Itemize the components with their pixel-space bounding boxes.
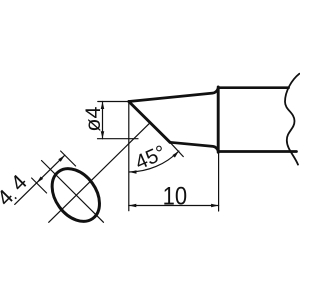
vertical reference line below apex (128, 102, 130, 211)
break wavy line (285, 74, 299, 165)
arrow 10 right (211, 204, 219, 208)
arrow dia4 top (101, 102, 105, 110)
arrow dia4 bottom (101, 131, 105, 139)
arrow arc upper end (172, 150, 180, 158)
bevel edge (129, 102, 170, 143)
10 dimension line (129, 205, 219, 207)
45deg arc (129, 151, 179, 172)
dia4 top extension line (98, 101, 129, 103)
collar front face line (217, 87, 220, 152)
shaft bottom line (219, 150, 297, 153)
arrow 4.4 upper (58, 154, 66, 162)
bevel edge thin extension (170, 142, 183, 156)
arrow arc lower end (129, 170, 137, 174)
ellipse major axis line (42, 161, 104, 223)
4.4 dimension line (15, 155, 65, 204)
10 dim right extension line (218, 153, 220, 212)
bevel face ellipse (42, 160, 109, 231)
svg-text:ø4: ø4 (81, 107, 105, 132)
tip body top edge (129, 88, 218, 101)
shaft top line (219, 86, 289, 89)
dia4 bottom extension line (98, 138, 139, 140)
4.4 extension tick lower (32, 178, 47, 193)
svg-text:10: 10 (163, 183, 187, 211)
projection centerline (49, 123, 150, 223)
arrow 4.4 lower (35, 176, 43, 184)
arrow 10 left (129, 204, 137, 208)
tip body bottom edge (170, 142, 218, 151)
dia4 dimension line (102, 102, 104, 139)
4.4 extension tick upper (61, 151, 76, 166)
